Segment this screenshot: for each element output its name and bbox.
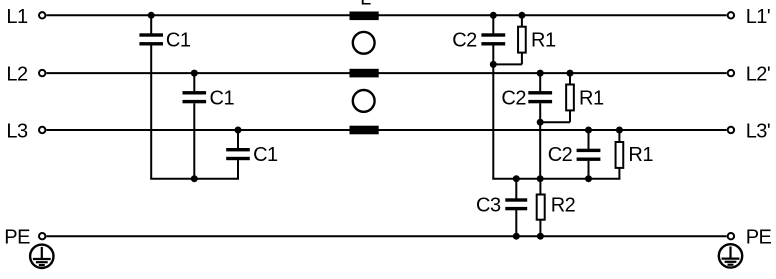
resistor R2 — [537, 195, 545, 220]
node C2b-R1b join — [537, 119, 544, 126]
wire C2c vertical bottom — [588, 161, 590, 179]
wire C2b vertical bottom — [539, 103, 541, 179]
wire R1a vertical — [521, 15, 523, 64]
capacitor C3 plates — [505, 198, 527, 210]
capacitor C2 (L3) plates — [577, 149, 601, 161]
wire C3 vertical top — [515, 179, 517, 199]
node L2-C1b — [191, 70, 198, 77]
wire C1a vertical bottom — [150, 45, 152, 178]
node L1-C1a — [148, 12, 155, 19]
wire R1a-C2a join — [492, 63, 522, 65]
capacitor C1 (L1) plates — [139, 33, 163, 45]
node PE-R2 — [537, 233, 544, 240]
capacitor C1 (L2) plates — [183, 91, 207, 103]
svg-text:C2: C2 — [548, 144, 573, 166]
svg-text:C1: C1 — [210, 87, 235, 109]
svg-text:C2: C2 — [501, 87, 526, 109]
capacitor C2 (L1) plates — [481, 33, 505, 45]
svg-text:L1: L1 — [6, 6, 28, 28]
node bus-C2c — [585, 175, 592, 182]
node L3-C1c — [235, 127, 242, 134]
wire C1c vertical top — [237, 130, 239, 148]
resistor R1 (L1) — [518, 27, 526, 53]
svg-text:PE: PE — [746, 227, 772, 249]
terminal PE left — [39, 233, 45, 239]
terminal L3' right — [728, 127, 734, 133]
terminal L3 left — [39, 127, 45, 133]
wire C1b vertical bottom — [193, 103, 195, 179]
wire C1b vertical top — [193, 73, 195, 91]
node bus-R2 — [537, 175, 544, 182]
wire C1c vertical bottom — [237, 160, 239, 179]
wire C2c vertical top — [588, 130, 590, 149]
wire C2a vertical top — [492, 15, 494, 33]
node PE-C3 — [513, 233, 520, 240]
svg-text:R1: R1 — [531, 30, 556, 52]
wire L3 rail — [46, 129, 726, 131]
svg-text:R2: R2 — [551, 195, 576, 217]
terminal L1 left — [39, 12, 45, 18]
wire L1 rail — [46, 14, 726, 16]
terminal L2' right — [728, 70, 734, 76]
node bus-C3 — [513, 175, 520, 182]
terminal L1' right — [728, 12, 734, 18]
node C1 star point — [191, 175, 198, 182]
terminal PE right — [728, 233, 734, 239]
wire R1c vertical — [618, 130, 620, 179]
wire C2a vertical bottom — [492, 45, 494, 178]
svg-text:C2: C2 — [452, 30, 477, 52]
svg-text:L2': L2' — [746, 64, 771, 86]
node L1-R1a — [518, 12, 525, 19]
svg-text:C1: C1 — [253, 144, 278, 166]
svg-text:L2: L2 — [6, 64, 28, 86]
resistor R1 (L3) — [616, 142, 624, 168]
terminal L2 left — [39, 70, 45, 76]
capacitor C1 (L3) plates — [226, 148, 250, 160]
wire C2b vertical top — [539, 73, 541, 91]
node L2-C2b — [537, 70, 544, 77]
svg-text:L1': L1' — [746, 6, 771, 28]
node L3-R1c — [616, 127, 623, 134]
svg-text:C3: C3 — [476, 195, 501, 217]
wire C1 star bus — [150, 178, 239, 180]
wire R1b-C2b join — [539, 121, 570, 123]
node L3-C2c — [585, 127, 592, 134]
ground protective-earth symbol right — [719, 244, 742, 267]
inductor L winding 3 — [350, 126, 379, 135]
inductor L core circle 1 — [353, 32, 375, 54]
inductor L core circle 2 — [353, 90, 375, 112]
svg-text:C1: C1 — [166, 30, 191, 52]
svg-text:L3': L3' — [746, 121, 771, 143]
wire L2 rail — [46, 72, 726, 74]
inductor L winding 2 — [350, 69, 379, 78]
node C2a-R1a join — [490, 61, 497, 68]
wire R1b vertical — [569, 73, 571, 122]
node L2-R1b — [567, 70, 574, 77]
svg-text:L3: L3 — [6, 121, 28, 143]
wire C3 vertical bottom — [515, 210, 517, 236]
ground protective-earth symbol left — [30, 245, 53, 268]
inductor L winding 1 — [350, 12, 379, 21]
svg-text:PE: PE — [4, 227, 30, 249]
svg-text:R1: R1 — [628, 144, 653, 166]
node L1-C2a — [490, 12, 497, 19]
svg-text:L: L — [360, 0, 371, 10]
resistor R1 (L2) — [566, 85, 574, 111]
capacitor C2 (L2) plates — [528, 91, 552, 103]
wire R2 vertical — [539, 179, 541, 237]
wire right star bus — [492, 178, 620, 180]
svg-text:R1: R1 — [579, 87, 604, 109]
wire PE rail — [46, 235, 726, 237]
wire C1a vertical top — [150, 15, 152, 33]
